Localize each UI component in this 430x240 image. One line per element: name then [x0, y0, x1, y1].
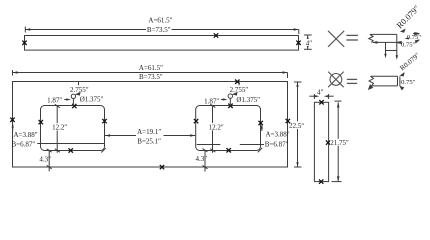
- svg-text:4″: 4″: [317, 88, 324, 96]
- right cutout: 12.2" dim line: [208, 104, 225, 153]
- legend row2: edge profile sketch: [369, 76, 398, 89]
- right cutout: X mark left edge: [194, 119, 198, 123]
- legend row1: edge profile sketch: [369, 34, 398, 59]
- svg-text:4.3″: 4.3″: [39, 155, 51, 163]
- svg-text:4″: 4″: [306, 40, 313, 48]
- svg-text:0.75″: 0.75″: [401, 79, 416, 86]
- side view: X mark right edge: [296, 41, 300, 45]
- svg-text:R0.079″: R0.079″: [398, 51, 421, 72]
- legend row2: equals sign: [347, 79, 357, 83]
- right cutout: 1.87" label: [204, 97, 227, 105]
- sidesplash: height dim 21.75": [330, 101, 353, 182]
- right cutout: 2.755" dim: [230, 82, 249, 106]
- legend row1: leader to row2 corner: [401, 73, 405, 76]
- svg-text:A=3.88″: A=3.88″: [14, 131, 38, 139]
- legend row2: thickness dim 0.75": [400, 76, 416, 89]
- left B=6.87" label with leader: [12, 141, 105, 149]
- svg-text:2.755″: 2.755″: [230, 86, 249, 94]
- left cutout: X mark bottom edge: [69, 148, 73, 152]
- plan view: X mark left edge: [10, 118, 14, 122]
- svg-text:21.75″: 21.75″: [330, 139, 349, 147]
- left cutout: corner tick bottom-right: [101, 148, 105, 152]
- left cutout: 2.755" dim: [70, 82, 89, 106]
- legend row1: equals sign: [346, 35, 358, 40]
- svg-text:4.3″: 4.3″: [195, 155, 207, 163]
- side view: dimension line B=73.5: [25, 27, 299, 35]
- sidesplash outline: [314, 102, 328, 181]
- plan view: right dimension 22.5": [289, 82, 306, 167]
- svg-text:12.2″: 12.2″: [52, 124, 67, 132]
- side view: X mark top edge: [214, 33, 218, 37]
- svg-text:A=3.88″: A=3.88″: [266, 131, 290, 139]
- left cutout outline: [41, 106, 105, 151]
- svg-text:0.75″: 0.75″: [401, 41, 416, 48]
- sidesplash: X mark right edge: [326, 140, 330, 144]
- left cutout: X mark right edge: [102, 119, 106, 123]
- plan view: X mark bottom edge: [160, 165, 164, 169]
- plan view: X mark right edge: [286, 119, 290, 123]
- right faucet hole circle: [228, 94, 232, 98]
- svg-text:12.2″: 12.2″: [209, 123, 224, 131]
- left 4.3" dim: [39, 149, 51, 172]
- svg-text:B=6.87″: B=6.87″: [12, 141, 36, 149]
- svg-text:A=61.5″: A=61.5″: [139, 64, 163, 72]
- legend row1: leader to top corner: [401, 29, 405, 32]
- left cutout: X mark left edge: [39, 120, 43, 124]
- legend row1: label 0.75" lower: [401, 40, 419, 49]
- svg-text:22.5″: 22.5″: [289, 122, 305, 131]
- left faucet hole circle: [71, 94, 75, 98]
- svg-text:Ø1.375″: Ø1.375″: [236, 96, 260, 104]
- plan view: top dimension line: [13, 70, 288, 78]
- side view: X mark left edge: [22, 41, 26, 45]
- svg-text:Ø1.375″: Ø1.375″: [80, 96, 104, 104]
- sidesplash: width dim 4": [309, 88, 333, 99]
- legend row2: symbol X in circle: [328, 72, 344, 88]
- svg-text:B=73.5″: B=73.5″: [139, 73, 163, 81]
- right cutout: X mark top edge: [228, 104, 232, 108]
- left cutout: 12.2" dim line: [51, 104, 68, 153]
- right cutout: corner tick bottom-right: [258, 148, 262, 152]
- middle dim A=19.1 / B=25.1: [105, 128, 195, 145]
- left cutout: 1.87" label: [47, 96, 71, 104]
- left A=3.88" label with up arrow: [12, 123, 38, 139]
- svg-text:R0.079″: R0.079″: [394, 3, 421, 30]
- svg-text:1.87″: 1.87″: [47, 96, 62, 104]
- left cutout: X mark top edge: [72, 104, 76, 108]
- right cutout: X mark bottom edge: [227, 148, 231, 152]
- svg-text:B=73.5″: B=73.5″: [147, 26, 171, 34]
- sidesplash: X mark top edge: [319, 100, 323, 104]
- svg-text:1.87″: 1.87″: [204, 97, 219, 105]
- plan view: countertop outline: [13, 82, 288, 168]
- svg-text:B=6.87″: B=6.87″: [265, 140, 289, 148]
- svg-text:B=25.1″: B=25.1″: [137, 138, 161, 146]
- svg-text:A=19.1″: A=19.1″: [137, 128, 161, 136]
- sidesplash: X mark bottom edge: [319, 179, 323, 183]
- legend row1: label 0.75" upper: [397, 33, 422, 44]
- side view: backsplash outline: [25, 36, 299, 51]
- side view: thickness dim 4": [304, 35, 313, 49]
- plan view: X mark top edge: [235, 80, 239, 84]
- right A=3.88" label with up arrow: [261, 124, 290, 139]
- svg-text:A=61.5″: A=61.5″: [148, 17, 172, 25]
- right B=6.87" label with leader: [197, 140, 289, 148]
- legend row1: symbol X: [328, 31, 344, 47]
- right 4.3" dim: [195, 149, 207, 172]
- right cutout outline: [196, 106, 261, 151]
- right cutout: X mark right edge: [259, 121, 263, 125]
